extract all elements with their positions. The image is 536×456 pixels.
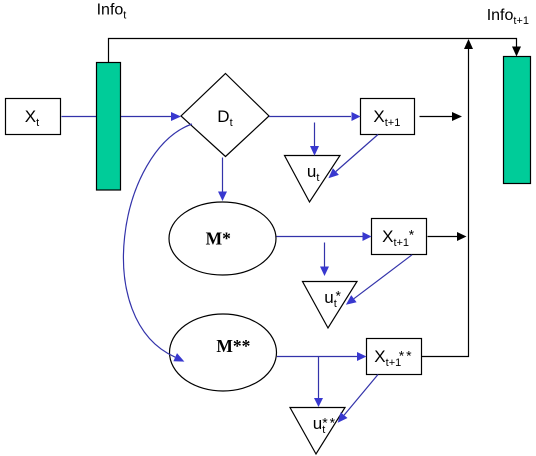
svg-text:M*: M* [206,229,232,249]
svg-text:M**: M** [216,336,250,356]
svg-text:*: * [409,227,415,243]
svg-text:*: * [336,287,342,303]
svg-text:**: ** [322,415,337,431]
svg-text:**: ** [399,348,414,364]
